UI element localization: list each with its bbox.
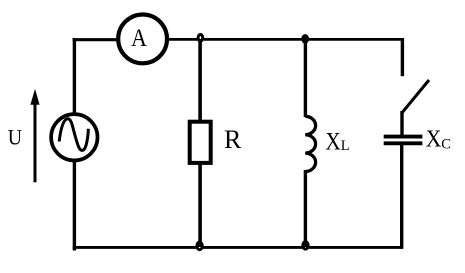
node top junction 2 [303, 36, 308, 43]
node bottom junction 1 [197, 242, 202, 250]
voltage source circle [51, 114, 97, 160]
ammeter circle [118, 15, 167, 64]
wire switch to capacitor [400, 111, 403, 136]
resistor R body [190, 122, 211, 163]
inductor XL coil [305, 116, 315, 171]
wire resistor branch top [198, 39, 202, 121]
svg-text:L: L [341, 138, 350, 154]
capacitor XC bottom plate [384, 141, 423, 145]
node bottom junction 2 [303, 242, 308, 249]
wire top (ammeter to top-right corner) [168, 38, 403, 41]
wire resistor branch bottom [198, 163, 202, 247]
wire inductor branch bottom [304, 170, 307, 247]
wire capacitor branch bottom [400, 145, 403, 249]
current direction arrow head [30, 89, 39, 105]
wire left vertical (source to bottom corner) [73, 160, 76, 251]
svg-text:R: R [224, 125, 242, 154]
svg-text:X: X [325, 129, 340, 156]
wire left vertical (source branch) [73, 39, 76, 116]
wire inductor branch top [304, 39, 307, 117]
wire bottom horizontal [73, 246, 403, 249]
svg-text:C: C [441, 136, 451, 152]
current direction arrow shaft [34, 101, 37, 182]
node top junction 1 [198, 34, 203, 41]
wire top-left corner stub [73, 38, 76, 41]
wire top horizontal (corner to ammeter) [73, 38, 118, 41]
svg-text:X: X [426, 126, 442, 152]
wire capacitor branch top [401, 38, 404, 76]
capacitor XC top plate [384, 135, 423, 139]
svg-text:U: U [8, 124, 22, 149]
switch blade [401, 80, 429, 114]
voltage source sine wave [59, 119, 88, 151]
svg-text:A: A [131, 25, 147, 52]
